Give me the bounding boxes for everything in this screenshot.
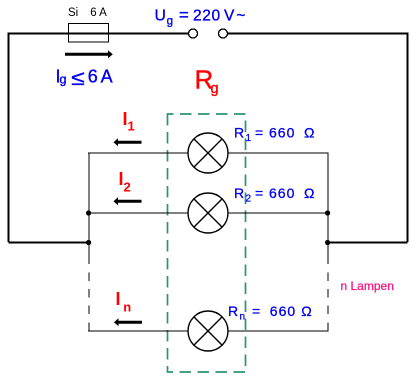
svg-text:R: R xyxy=(234,125,244,141)
svg-text:6: 6 xyxy=(88,66,98,86)
svg-text:=: = xyxy=(179,6,189,25)
wire top conductor from left corner through fuse to terminal xyxy=(8,33,189,35)
wire left bus solid upper segment xyxy=(88,152,90,264)
svg-text:g: g xyxy=(167,15,173,27)
label R2 = 660 Ohm xyxy=(234,185,314,205)
current arrow In (leftward) xyxy=(114,318,142,326)
svg-text:R: R xyxy=(234,185,244,201)
svg-text:Ω: Ω xyxy=(304,185,314,201)
svg-text:220: 220 xyxy=(193,7,221,24)
svg-text:U: U xyxy=(155,7,166,24)
current arrow Ig (rightward) xyxy=(65,50,113,58)
svg-text:A: A xyxy=(101,66,113,86)
svg-text:Si: Si xyxy=(68,7,78,19)
wire left bus dashed continuation xyxy=(88,273,90,282)
label Ig <= 6 A xyxy=(56,66,113,90)
wire right feed horizontal into right bus xyxy=(327,242,407,244)
svg-text:R: R xyxy=(228,303,238,319)
wire top conductor from terminal to top-right corner xyxy=(228,33,408,35)
svg-text:n Lampen: n Lampen xyxy=(341,279,394,293)
terminal circle left of source gap xyxy=(189,29,198,38)
svg-text:V: V xyxy=(224,7,235,24)
wire branch 2 left segment xyxy=(88,212,188,214)
svg-text:I: I xyxy=(116,289,121,309)
label Rn = 660 Ohm xyxy=(228,303,312,323)
lamp R2 xyxy=(188,193,228,233)
svg-text:6 A: 6 A xyxy=(90,7,107,19)
label Rg (total resistance, red) xyxy=(195,65,219,98)
wire branch 1 left segment xyxy=(88,152,188,154)
wire branch 1 right segment xyxy=(228,152,329,154)
svg-text:=: = xyxy=(255,185,263,201)
wire branch n right segment xyxy=(228,330,329,332)
lamp R1 xyxy=(188,133,228,173)
svg-text:660: 660 xyxy=(269,185,295,201)
wire branch 2 right segment xyxy=(228,212,329,214)
junction dot right bus branch 2 xyxy=(325,210,330,215)
label R1 = 660 Ohm xyxy=(234,125,314,145)
wire right bus solid upper segment xyxy=(327,152,329,264)
fuse Si 6A (rectangle) xyxy=(69,24,109,43)
terminal circle right of source gap xyxy=(219,29,228,38)
junction dot left bus branch 2 xyxy=(86,210,91,215)
wire right outer vertical conductor xyxy=(407,33,409,243)
svg-text:660: 660 xyxy=(270,303,296,319)
wire branch n left segment xyxy=(88,330,188,332)
wire left bus solid lower segment xyxy=(88,323,90,332)
wire right bus solid lower segment xyxy=(327,323,329,332)
junction dot right bus feed xyxy=(325,240,330,245)
lamp Rn xyxy=(188,311,228,351)
junction dot left bus feed xyxy=(86,240,91,245)
svg-text:n: n xyxy=(123,300,131,315)
svg-text:=: = xyxy=(252,303,260,319)
svg-text:Ω: Ω xyxy=(304,125,314,141)
wire right bus dashed continuation xyxy=(327,273,329,282)
svg-text:Ω: Ω xyxy=(301,303,311,319)
current arrow I1 (leftward) xyxy=(114,138,142,146)
label Ug = 220 V~ xyxy=(155,6,246,28)
svg-text:1: 1 xyxy=(246,133,252,144)
wire left feed horizontal into left bus xyxy=(9,242,89,244)
svg-text:660: 660 xyxy=(269,125,295,141)
dashed green group box around lamps xyxy=(168,114,246,372)
svg-text:n: n xyxy=(240,312,246,323)
svg-text:2: 2 xyxy=(246,194,252,205)
svg-text:~: ~ xyxy=(236,7,245,24)
svg-text:≤: ≤ xyxy=(71,67,85,90)
svg-text:g: g xyxy=(60,73,67,87)
svg-text:g: g xyxy=(211,81,219,97)
wire left outer vertical conductor xyxy=(8,33,10,243)
current arrow I2 (leftward) xyxy=(114,197,142,205)
svg-text:=: = xyxy=(255,125,263,141)
